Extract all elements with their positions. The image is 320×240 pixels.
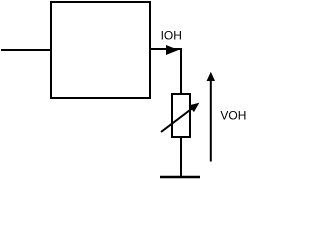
svg-text:IOH: IOH (161, 29, 182, 43)
svg-text:VOH: VOH (220, 109, 246, 123)
